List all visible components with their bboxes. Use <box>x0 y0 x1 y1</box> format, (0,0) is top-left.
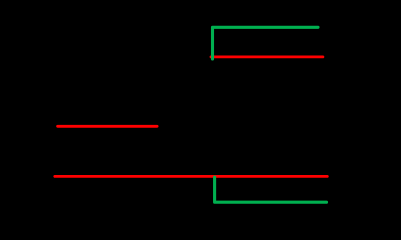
wire: red trace middle-left <box>58 125 158 128</box>
wire: green step trace lower-right <box>215 177 327 202</box>
wire: red trace upper-right <box>211 56 323 59</box>
wire: green step trace upper-right <box>213 27 319 59</box>
wire: red trace bottom long <box>55 175 328 178</box>
